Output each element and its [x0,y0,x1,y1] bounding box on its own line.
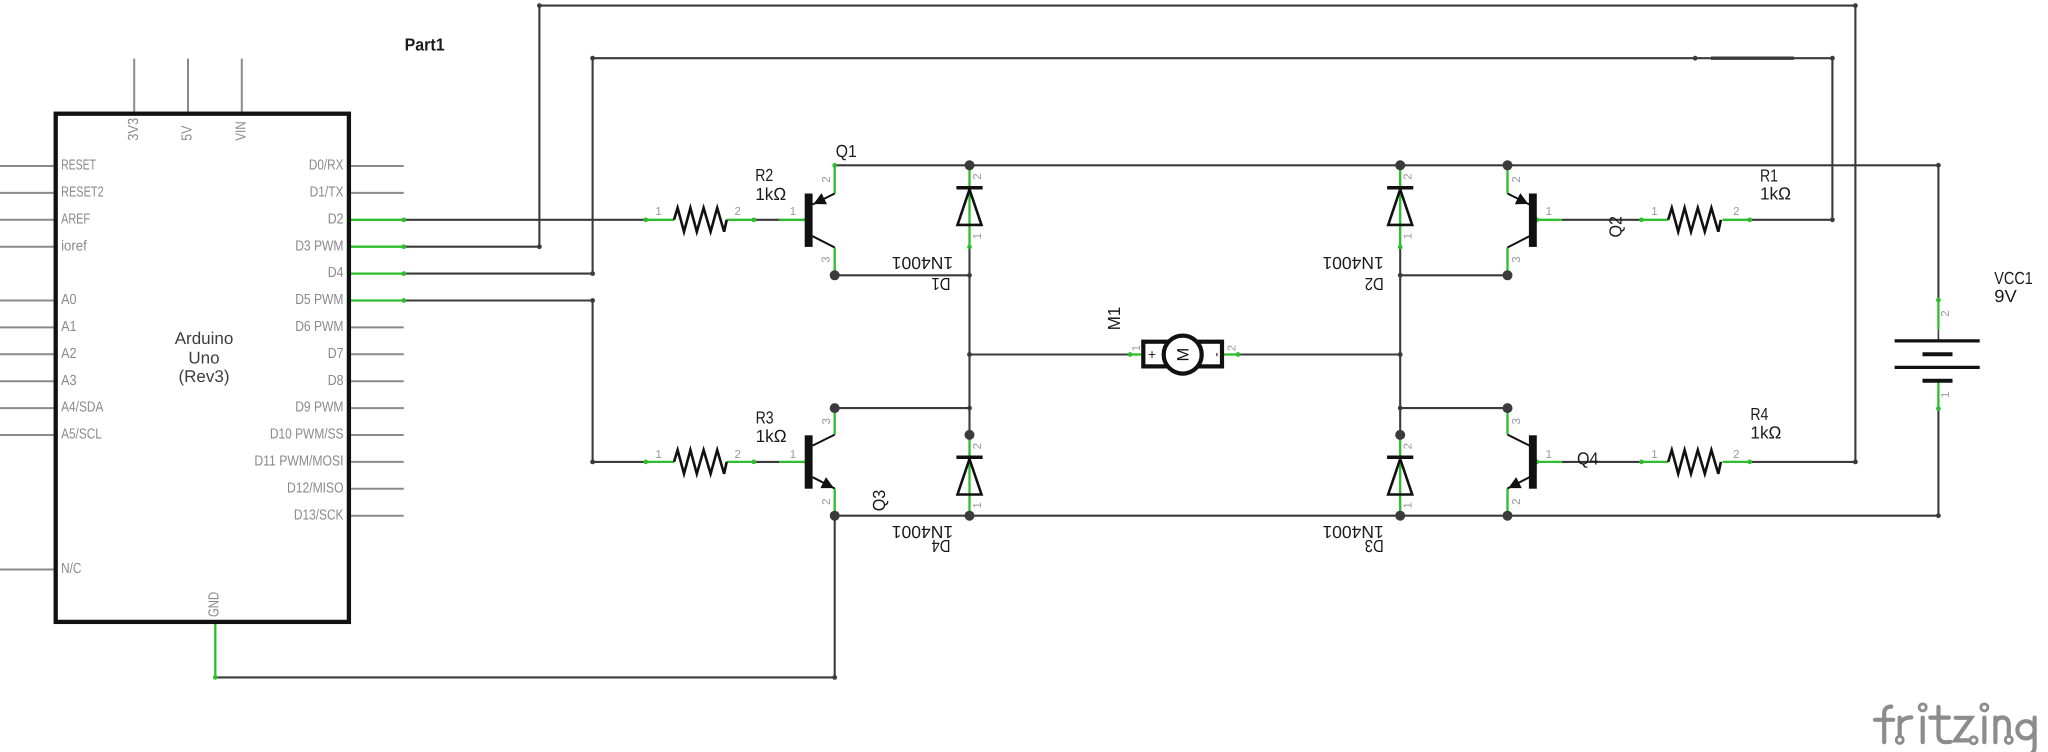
svg-text:RESET2: RESET2 [61,185,104,201]
svg-text:2: 2 [821,498,833,504]
svg-text:A0: A0 [61,292,77,308]
svg-text:1: 1 [1403,233,1415,239]
svg-text:-: - [1209,352,1224,357]
svg-text:R1: R1 [1760,166,1778,186]
svg-text:3: 3 [821,418,833,424]
svg-text:1: 1 [1940,392,1952,398]
svg-text:D2: D2 [1365,274,1384,294]
svg-text:+: + [1145,351,1160,359]
svg-text:D7: D7 [328,346,344,362]
svg-text:2: 2 [1511,498,1523,504]
svg-text:9V: 9V [1994,286,2017,306]
svg-text:1: 1 [790,449,796,461]
svg-text:1: 1 [1131,345,1143,351]
svg-text:1: 1 [1403,502,1415,508]
svg-text:1: 1 [1546,206,1552,218]
svg-text:1: 1 [1651,206,1657,218]
svg-text:1: 1 [1546,449,1552,461]
svg-text:VIN: VIN [233,121,249,141]
svg-text:Uno: Uno [188,349,219,368]
svg-text:M1: M1 [1104,307,1124,331]
svg-text:A2: A2 [61,346,77,362]
svg-text:D4: D4 [931,536,950,556]
svg-text:2: 2 [1227,345,1239,351]
svg-text:1kΩ: 1kΩ [756,426,787,446]
svg-text:1kΩ: 1kΩ [1760,184,1791,204]
svg-text:M: M [1175,348,1193,362]
svg-text:D6 PWM: D6 PWM [295,319,343,335]
svg-text:2: 2 [972,443,984,449]
svg-text:2: 2 [1940,310,1952,316]
svg-text:3: 3 [1511,418,1523,424]
svg-text:2: 2 [1733,206,1739,218]
svg-text:D11 PWM/MOSI: D11 PWM/MOSI [254,454,343,470]
svg-text:D5 PWM: D5 PWM [295,292,343,308]
svg-text:Part1: Part1 [405,34,445,54]
svg-text:1N4001: 1N4001 [1322,253,1383,273]
svg-text:A5/SCL: A5/SCL [61,427,102,443]
svg-text:ioref: ioref [61,238,88,254]
svg-text:2: 2 [1511,176,1523,182]
svg-text:RESET: RESET [61,158,96,174]
svg-text:1kΩ: 1kΩ [1750,423,1781,443]
svg-text:2: 2 [972,173,984,179]
svg-text:2: 2 [734,449,740,461]
svg-text:R2: R2 [755,165,773,185]
svg-text:D2: D2 [328,211,344,227]
svg-text:Q4: Q4 [1577,449,1599,469]
svg-text:D8: D8 [328,373,344,389]
svg-text:1: 1 [655,449,661,461]
svg-text:A3: A3 [61,373,77,389]
svg-text:3: 3 [1511,256,1523,262]
svg-text:3: 3 [821,256,833,262]
svg-text:1kΩ: 1kΩ [755,184,786,204]
svg-text:Q3: Q3 [869,490,889,512]
svg-text:1N4001: 1N4001 [892,253,953,273]
svg-text:3V3: 3V3 [126,118,142,141]
svg-text:D3: D3 [1365,536,1384,556]
svg-text:1: 1 [790,206,796,218]
svg-text:D12/MISO: D12/MISO [287,480,344,496]
svg-text:1: 1 [972,233,984,239]
svg-text:D9 PWM: D9 PWM [295,400,343,416]
svg-text:D1/TX: D1/TX [310,185,344,201]
svg-text:1: 1 [972,502,984,508]
svg-text:2: 2 [821,176,833,182]
svg-text:2: 2 [1403,443,1415,449]
svg-text:1: 1 [1651,449,1657,461]
svg-text:2: 2 [1733,449,1739,461]
svg-text:1: 1 [655,206,661,218]
svg-text:AREF: AREF [61,211,90,227]
svg-text:Q2: Q2 [1606,216,1626,238]
svg-text:(Rev3): (Rev3) [178,367,229,386]
svg-text:R4: R4 [1750,404,1768,424]
svg-text:D3 PWM: D3 PWM [295,238,343,254]
svg-text:VCC1: VCC1 [1994,268,2033,288]
svg-text:D10 PWM/SS: D10 PWM/SS [270,427,344,443]
svg-text:2: 2 [1403,173,1415,179]
svg-text:A4/SDA: A4/SDA [61,400,104,416]
svg-text:A1: A1 [61,319,77,335]
svg-text:D13/SCK: D13/SCK [294,507,344,523]
svg-text:2: 2 [734,206,740,218]
svg-text:Arduino: Arduino [175,329,234,348]
svg-text:D0/RX: D0/RX [309,158,344,174]
svg-text:D1: D1 [932,274,951,294]
svg-text:N/C: N/C [61,561,81,577]
svg-text:R3: R3 [756,408,774,428]
svg-text:Q1: Q1 [836,141,857,161]
svg-text:5V: 5V [180,125,196,141]
svg-text:D4: D4 [328,265,344,281]
svg-text:GND: GND [206,592,222,617]
